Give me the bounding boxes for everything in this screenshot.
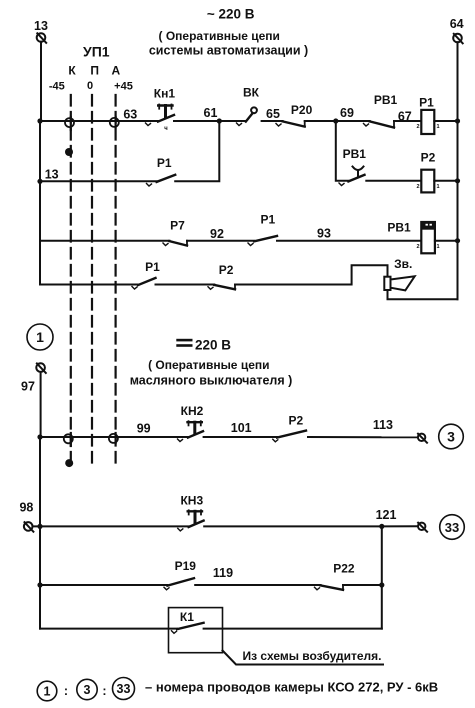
svg-text:~ 220 В: ~ 220 В [207,7,255,22]
svg-text:99: 99 [137,422,151,436]
svg-text:2: 2 [416,124,419,130]
svg-text:Кн1: Кн1 [154,86,176,100]
svg-text:113: 113 [373,418,393,432]
wire row8 [40,628,177,630]
wire row3 left [40,284,138,286]
svg-text:системы автоматизации ): системы автоматизации ) [149,44,308,58]
switch UP1 dashed shaft A [114,95,116,465]
contact P20 (NC) [276,103,313,127]
wire row1 to coil P1 [394,120,421,122]
svg-text:3: 3 [84,683,91,697]
svg-text:Р2: Р2 [219,263,234,277]
svg-text:1: 1 [36,329,44,345]
wire row3 mid [156,284,215,286]
svg-text:13: 13 [34,19,48,33]
contact PB1 (time-delay, mid) [339,147,366,186]
leader line from K1 box [223,651,384,665]
svg-text:92: 92 [210,227,224,241]
svg-text:Р1: Р1 [145,260,160,274]
svg-text:65: 65 [266,107,280,121]
svg-text:64: 64 [450,17,464,31]
title AC section [149,7,308,58]
svg-text:121: 121 [376,508,397,522]
svg-text:Р2: Р2 [421,150,436,164]
node right bus row1 [455,118,460,123]
time relay coil PB1 [387,220,439,253]
wire row3 to bell [235,265,388,284]
svg-text:13: 13 [45,168,59,182]
switch UP1 closed-position dot K [65,148,73,156]
svg-text:масляного выключателя ): масляного выключателя ) [130,373,293,387]
svg-text:РВ1: РВ1 [374,93,398,107]
legend wire number circle 1 [37,681,57,701]
svg-text:– номера проводов камеры КСО 2: – номера проводов камеры КСО 272, РУ - 6… [145,680,438,695]
svg-text:Р1: Р1 [419,96,434,110]
svg-text:Р1: Р1 [157,156,172,170]
node 121 drop wire [381,526,383,628]
wire row2 93 segment [277,240,421,242]
wire row 13 [37,168,156,184]
wire row5 left [40,436,188,438]
wire row7 right [343,584,382,586]
bell Zv. [384,257,414,290]
contact P19 [164,559,196,590]
wire row6 left [33,525,189,527]
svg-text:ч: ч [164,126,168,132]
svg-text:К1: К1 [180,610,194,624]
wire row7 119 segment [195,584,320,586]
svg-text:1: 1 [44,685,51,699]
svg-text:К: К [68,64,76,78]
svg-text:63: 63 [123,108,137,122]
svg-text:33: 33 [117,682,131,696]
svg-text:РВ1: РВ1 [343,147,367,161]
contact P1 (row2) [248,213,277,246]
svg-text:Р19: Р19 [175,559,197,573]
svg-text:98: 98 [19,501,33,515]
wire row1 65 segment [262,120,283,122]
contact P22 (NC) [315,562,355,590]
svg-text:2: 2 [416,184,419,190]
svg-text:61: 61 [204,106,218,120]
node junction left bus row6 [37,524,42,529]
terminal 98 [19,501,33,532]
svg-text:Р2: Р2 [289,414,304,428]
terminal 113 end [418,434,427,443]
switch UP1 contact A row1 [114,117,116,127]
svg-text:119: 119 [213,566,233,580]
svg-text:1: 1 [436,124,439,130]
node junction left bus row5 [37,434,42,439]
contact K1 [169,608,223,653]
svg-text:2: 2 [416,244,419,250]
relay coil P1 [416,96,439,135]
svg-text:33: 33 [445,520,459,535]
svg-text:97: 97 [21,379,35,393]
wire row1 69 segment [305,120,370,122]
svg-text:ВК: ВК [243,86,260,100]
svg-text:1: 1 [436,244,439,250]
svg-text:( Оперативные цепи: ( Оперативные цепи [158,29,279,43]
svg-text:1: 1 [436,184,439,190]
wire number circle 3 [439,424,464,449]
wire number circle 1 [27,324,53,350]
left bus (lower segment) [39,372,42,629]
svg-text:Из схемы возбудителя.: Из схемы возбудителя. [243,649,382,663]
wire bell to right bus [388,290,458,299]
wire row6 right [204,525,418,527]
svg-text::: : [102,684,106,698]
svg-text:А: А [111,64,120,78]
svg-text:Р20: Р20 [291,103,313,117]
wire row2 left [40,240,170,242]
switch UP1 closed-position dot K row5 [65,459,73,467]
svg-text:КН3: КН3 [180,494,203,508]
terminal 97 [21,363,46,393]
wire row13 right to node 61 [175,121,219,181]
svg-text:Р22: Р22 [333,562,355,576]
svg-text:Р7: Р7 [170,219,185,233]
push button Kn1 [146,86,176,132]
push button KN2 [178,404,204,442]
svg-text:+45: +45 [114,81,133,93]
contact P1 (row 13) [147,156,176,186]
svg-text:УП1: УП1 [83,44,110,60]
svg-text:Р1: Р1 [261,213,276,227]
wire coil PB1 to right bus [435,240,458,242]
wire row7 left [40,584,167,586]
node 69 drop wire [336,121,349,181]
limit switch VK [237,86,260,126]
legend wire number circle 33 [113,678,135,700]
switch UP1 dashed shaft K [70,95,72,459]
svg-text:П: П [90,64,99,78]
svg-text:( Оперативные цепи: ( Оперативные цепи [148,358,269,372]
terminal 121 end [418,523,427,532]
left bus (top segment) [40,42,41,285]
terminal 13 [34,19,48,43]
wire row1 mid (61 segment) [174,120,246,122]
DC section title [130,338,293,388]
legend wire number circle 3 [77,679,97,699]
wire row8 right [204,628,382,630]
terminal 64 [450,17,464,43]
svg-text:101: 101 [231,421,252,435]
node right bus row2 [455,238,460,243]
wire coil P1 to right bus [434,120,457,122]
svg-text:0: 0 [87,80,93,92]
node junction left bus row7 [37,582,42,587]
svg-text:220 В: 220 В [195,338,231,353]
wire row2 92 segment [187,240,254,242]
node right bus P2 row [455,178,460,183]
svg-text:-45: -45 [49,81,65,93]
switch UP1 contact K row1 [70,117,72,130]
svg-text:КН2: КН2 [181,404,204,418]
node junction right row7 [379,582,384,587]
wire coil P2 to right bus [434,180,457,182]
switch UP1 labels [49,44,133,93]
switch UP1 dashed shaft P [91,95,93,465]
contact P2 (row5) [273,414,306,442]
push button KN3 [178,494,204,531]
switch UP1 contact A row5 [114,433,116,443]
svg-text:3: 3 [447,429,455,445]
contact PB1 (NC, row1) [364,93,398,128]
node junction left bus row1 [37,118,42,123]
svg-text:РВ1: РВ1 [387,220,411,234]
contact P7 (NC) [163,219,187,246]
svg-text:93: 93 [317,227,331,241]
svg-text:Зв.: Зв. [394,257,412,271]
contact P1 (row3) [132,260,160,289]
switch UP1 contact K row5 [70,433,72,446]
relay coil P2 [416,150,439,192]
contact P2 (NC, row3) [208,263,235,289]
right bus [457,42,459,299]
wire row1 left [40,120,158,122]
wire row5 101 segment [204,436,278,438]
wire number circle 33 [440,515,465,540]
svg-text:69: 69 [340,106,354,120]
wire row5 113 segment [308,436,418,438]
wire to coil P2 [366,180,421,182]
svg-text::: : [64,684,68,698]
